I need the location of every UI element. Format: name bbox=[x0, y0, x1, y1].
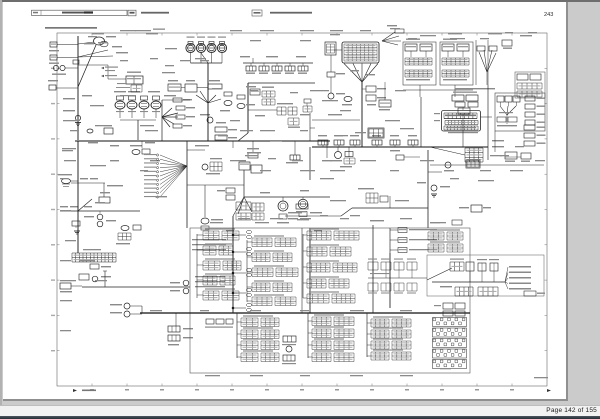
svg-text:243: 243 bbox=[544, 12, 553, 18]
